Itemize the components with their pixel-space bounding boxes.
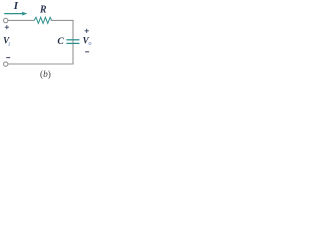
terminal bottom-left	[3, 62, 7, 66]
plus sign right	[85, 29, 89, 33]
minus sign left	[6, 57, 10, 59]
wire top left segment	[8, 19, 34, 21]
svg-text:C: C	[57, 36, 64, 47]
capacitor C plates	[66, 40, 79, 44]
wire bottom	[8, 63, 74, 65]
plus sign left	[5, 25, 9, 29]
svg-text:R: R	[39, 4, 47, 15]
wire top right segment	[51, 19, 74, 21]
svg-text:(b): (b)	[40, 69, 51, 80]
current arrow I	[4, 12, 27, 16]
svg-text:i: i	[8, 41, 10, 48]
svg-text:I: I	[13, 0, 19, 12]
svg-text:o: o	[88, 40, 91, 47]
minus sign right	[85, 51, 89, 53]
wire right vertical	[72, 20, 74, 65]
resistor R	[34, 17, 52, 23]
terminal top-left	[3, 18, 7, 22]
